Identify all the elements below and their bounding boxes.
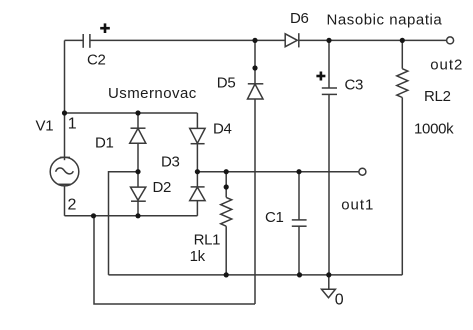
svg-text:1000k: 1000k bbox=[414, 121, 454, 138]
svg-text:V1: V1 bbox=[36, 118, 54, 135]
svg-text:D1: D1 bbox=[95, 134, 114, 151]
svg-text:out2: out2 bbox=[430, 57, 463, 74]
svg-text:1: 1 bbox=[68, 115, 77, 132]
svg-text:D4: D4 bbox=[213, 121, 232, 138]
svg-text:D2: D2 bbox=[153, 179, 172, 196]
svg-text:1k: 1k bbox=[190, 248, 206, 265]
svg-text:C3: C3 bbox=[345, 77, 364, 94]
svg-text:out1: out1 bbox=[341, 197, 374, 214]
svg-text:C1: C1 bbox=[265, 209, 284, 226]
svg-text:Usmernovac: Usmernovac bbox=[108, 85, 197, 102]
svg-text:D3: D3 bbox=[161, 153, 180, 170]
svg-text:D6: D6 bbox=[290, 10, 309, 27]
svg-text:2: 2 bbox=[68, 196, 77, 213]
svg-text:D5: D5 bbox=[217, 74, 236, 91]
svg-text:0: 0 bbox=[335, 291, 344, 308]
svg-text:RL2: RL2 bbox=[424, 88, 451, 105]
svg-text:C2: C2 bbox=[87, 52, 106, 69]
svg-text:Nasobic napatia: Nasobic napatia bbox=[327, 12, 443, 29]
svg-text:RL1: RL1 bbox=[194, 231, 221, 248]
